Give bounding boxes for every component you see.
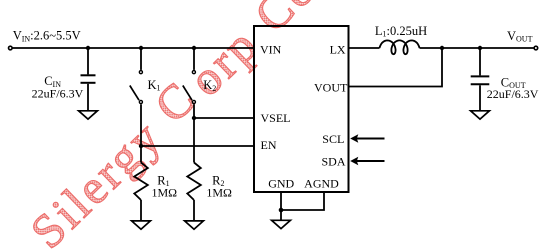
wire inductor to VOUT terminal <box>420 47 534 49</box>
watermark "Silergy Corp Co" <box>18 0 327 250</box>
inductor L1 <box>380 40 420 54</box>
IC U1 box <box>254 26 349 192</box>
svg-text:EN: EN <box>261 138 277 152</box>
wire R2 to ground <box>193 200 195 221</box>
wire VOUT pin up to output rail <box>349 48 443 87</box>
wire VSEL node to R2 (crosses EN line) <box>193 118 195 163</box>
node junction GND/AGND <box>279 208 284 213</box>
node junction COUT/rail <box>478 46 482 50</box>
node junction K1/rail <box>139 46 143 50</box>
ground below CIN <box>79 111 98 119</box>
node junction VSEL/R2 <box>192 116 196 120</box>
svg-text:AGND: AGND <box>304 176 339 190</box>
node VIN input terminal <box>9 46 13 50</box>
node junction CIN/rail <box>86 46 90 50</box>
svg-text:22uF/6.3V: 22uF/6.3V <box>32 87 84 101</box>
svg-text:1MΩ: 1MΩ <box>206 186 232 200</box>
capacitor COUT <box>471 75 490 77</box>
svg-text:22uF/6.3V: 22uF/6.3V <box>487 87 539 101</box>
wire EN node to R1 <box>140 146 142 163</box>
SCL input arrow <box>355 138 385 140</box>
ground below COUT <box>471 111 490 119</box>
resistor R1 <box>134 163 148 201</box>
wire GND node to ground <box>280 210 282 220</box>
svg-text:LX: LX <box>330 43 346 57</box>
node junction K2/rail <box>192 46 196 50</box>
wire VSEL line to pin <box>194 117 254 119</box>
capacitor CIN <box>81 74 96 76</box>
svg-text:GND: GND <box>268 176 294 190</box>
wire rail to K1 <box>140 48 142 70</box>
svg-text:SDA: SDA <box>321 155 345 169</box>
wire LX pin to inductor <box>349 47 380 49</box>
switch K1 <box>139 71 142 74</box>
resistor R2 <box>187 163 201 201</box>
wire K1 to EN node <box>140 104 142 146</box>
wire R1 to ground <box>140 200 142 221</box>
ground below R2 <box>185 221 204 229</box>
wire rail to CIN <box>87 48 89 74</box>
wire EN line to pin <box>141 145 254 147</box>
svg-text:SCL: SCL <box>322 132 344 146</box>
wire AGND pin stub to GND node <box>281 192 324 210</box>
wire rail to COUT <box>479 48 481 75</box>
wire COUT to ground <box>479 85 481 110</box>
wire CIN to ground <box>87 84 89 110</box>
wire rail to K2 <box>193 48 195 70</box>
wire K2 to VSEL node <box>193 104 195 118</box>
svg-text:VSEL: VSEL <box>261 111 291 125</box>
node junction EN/R1 <box>139 144 143 148</box>
svg-text:VIN: VIN <box>260 43 282 57</box>
SDA input arrow <box>355 160 385 162</box>
switch K2 <box>192 71 195 74</box>
svg-text:1MΩ: 1MΩ <box>152 186 178 200</box>
wire GND pin stub <box>280 192 282 210</box>
node junction VOUT riser/rail <box>440 46 444 50</box>
node VOUT output terminal <box>534 46 538 50</box>
wire VIN rail <box>13 47 255 49</box>
ground below R1 <box>132 221 151 229</box>
svg-text:VOUT: VOUT <box>314 80 348 94</box>
ground main (GND/AGND) <box>272 220 291 228</box>
